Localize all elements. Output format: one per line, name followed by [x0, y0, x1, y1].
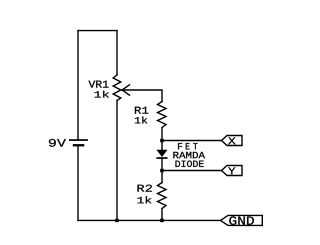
wire wiper to R1 [122, 90, 162, 102]
diode D1 [156, 150, 167, 159]
resistor R1 zigzag [158, 102, 167, 128]
terminal flag Y [222, 166, 243, 176]
label X [228, 137, 236, 144]
label F E T [178, 143, 198, 149]
terminal flag X [222, 136, 243, 146]
wire left vertical (battery top lead) [77, 31, 79, 140]
node junction dot at R1/X [160, 139, 164, 143]
label DIODE [176, 161, 204, 167]
node junction dot at diode/Y [160, 169, 164, 173]
terminal flag GND [221, 215, 263, 225]
wire VR1 column top [116, 31, 118, 75]
label 9V [49, 139, 66, 147]
wire node Y to terminal Y [162, 170, 221, 172]
resistor VR1 zigzag [113, 75, 121, 101]
label VR1 [89, 81, 109, 88]
label Y [228, 167, 235, 174]
label RAMDA [173, 152, 205, 158]
VR1 wiper arrow [122, 85, 130, 95]
node junction dot bottom VR1 [115, 219, 119, 223]
resistor R2 zigzag [158, 183, 167, 209]
wire diode to node Y [161, 159, 163, 183]
wire battery bottom lead [77, 146, 79, 220]
label R1 [135, 107, 148, 114]
wire bottom horizontal [78, 219, 221, 221]
battery B1 plates [69, 139, 88, 146]
wire VR1 column bottom [116, 101, 118, 221]
label R1 value 1k [135, 117, 148, 124]
label R2 [138, 185, 153, 192]
label R2 value 1k [138, 196, 152, 203]
label VR1 value 1k [95, 91, 110, 98]
wire R1 to node X [161, 128, 163, 151]
wire node X to terminal X [162, 140, 221, 142]
node junction dot bottom R2 [160, 219, 164, 223]
wire top horizontal [78, 30, 117, 32]
label GND [229, 216, 254, 224]
wire R2 bottom [161, 209, 163, 221]
